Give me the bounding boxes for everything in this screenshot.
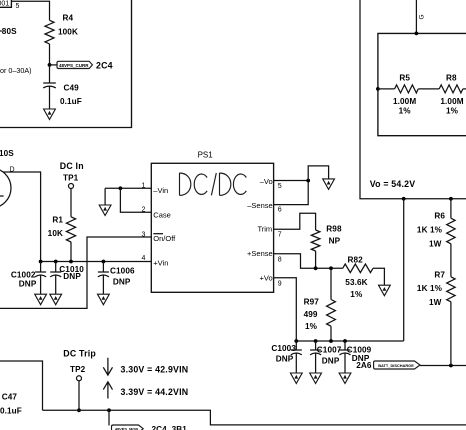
arrow down annotation [103,358,112,375]
svg-text:C1009: C1009 [347,345,372,354]
capacitor C1007 [310,341,321,373]
wire On/Off to left edge [0,237,151,308]
capacitor C1010 [50,262,61,295]
svg-text:R4: R4 [63,14,74,23]
svg-text:DNP: DNP [63,272,81,281]
svg-text:80S: 80S [2,27,17,36]
arrow up annotation [103,382,112,399]
output cap bus [296,340,403,342]
svg-text:R82: R82 [348,256,364,265]
svg-text:8: 8 [278,256,282,263]
svg-text:Case: Case [153,210,171,219]
svg-text:TP2: TP2 [70,365,86,374]
wire to output ground [308,166,328,181]
resistor R98 [311,230,320,251]
svg-text:10K: 10K [48,229,63,238]
wire node to flag [50,64,58,66]
svg-text:10S: 10S [0,149,14,158]
node R98 bottom [314,266,318,270]
svg-text:48VPS_MON: 48VPS_MON [115,427,139,430]
svg-text:2C4: 2C4 [96,60,113,70]
wire TP1 to R1 [70,188,72,217]
svg-text:1%: 1% [446,106,459,115]
svg-text:R98: R98 [326,224,342,233]
wire C49 to ground [49,86,51,109]
connector J? box top-left [0,0,11,7]
ground C1010 [50,294,62,305]
svg-text:On/Off: On/Off [153,234,176,243]
svg-text:C1002: C1002 [11,271,36,280]
svg-text:R7: R7 [434,270,445,279]
svg-text:2C4, 3B1: 2C4, 3B1 [152,425,188,430]
wire node to C49 [49,65,51,83]
wire -Vin net [105,187,151,189]
resistor R1 [66,217,75,242]
wire drain to bus [3,172,41,262]
svg-text:Trim: Trim [257,225,272,234]
node D wire / C1002 [39,260,43,264]
svg-text:001: 001 [0,1,9,8]
svg-text:53.6K: 53.6K [345,278,367,287]
node C1006 [102,260,106,264]
svg-text:or 0–30A): or 0–30A) [0,66,32,75]
svg-text:1W: 1W [429,239,442,248]
ground C1006 [98,294,110,305]
node C1010 [54,260,58,264]
resistor R8 [418,85,466,93]
resistor R7 [447,277,455,366]
capacitor C1002 [35,262,46,295]
svg-text:9: 9 [278,280,282,287]
capacitor C49 [43,83,56,88]
wire pin8 to R82 [274,254,343,269]
svg-text:C49: C49 [64,83,80,92]
node divider left [376,87,380,91]
node junction R4/C49/flag [48,63,52,67]
svg-text:–Vin: –Vin [153,186,168,195]
wire G input [415,0,417,33]
svg-text:1%: 1% [350,290,363,299]
svg-text:BATT_DISCHARGE: BATT_DISCHARGE [378,363,414,368]
svg-text:Vo = 54.2V: Vo = 54.2V [370,179,416,189]
bus +Vin [41,261,152,263]
svg-text:DNP: DNP [322,356,340,365]
svg-text:1.00M: 1.00M [393,97,416,106]
wire C47 net [0,361,43,410]
ground R82 [379,285,391,296]
svg-text:1%: 1% [399,106,412,115]
svg-text:G: G [419,14,426,19]
svg-text:+Vo: +Vo [260,274,273,283]
node Vo/R6 [449,197,453,201]
wire TP2 to bus [78,381,80,411]
svg-text:NP: NP [329,237,341,246]
svg-text:C1007: C1007 [317,345,342,354]
resistor R97 [327,268,336,341]
svg-text:+Sense: +Sense [247,249,273,258]
svg-text:TP1: TP1 [63,173,79,182]
resistor R6 [447,199,455,277]
node pin1/pin2 tie [119,186,123,190]
svg-text:1K 1%: 1K 1% [417,284,443,293]
wire to Case pin [120,188,151,212]
svg-text:R6: R6 [434,212,445,221]
svg-text:1.00M: 1.00M [440,97,463,106]
svg-text:–Sense: –Sense [247,201,272,210]
capacitor C1009 [340,341,351,373]
svg-text:DNP: DNP [276,355,294,364]
big DC/DC lettering [180,173,247,195]
resistor R82 [343,264,373,273]
svg-text:0.1uF: 0.1uF [0,406,22,415]
svg-text:3.39V = 44.2VIN: 3.39V = 44.2VIN [121,387,189,397]
svg-text:R8: R8 [446,74,457,83]
wire R1 to bus [70,242,72,262]
wire R98 bottom [315,251,317,268]
svg-text:1K 1%: 1K 1% [417,226,443,235]
divider box R5/R8 [378,33,466,135]
svg-text:6: 6 [278,206,282,213]
node R1 [69,260,73,264]
wire pin5 [274,180,309,182]
big box left edge [0,0,132,128]
svg-text:7: 7 [278,231,282,238]
svg-text:R1: R1 [52,215,63,224]
svg-text:0.1uF: 0.1uF [60,97,82,106]
wire pin9 down [274,278,297,341]
svg-text:R97: R97 [304,298,320,307]
ground near pin1 [104,188,106,205]
net flag BATT_DISCHARGE [374,361,420,369]
capacitor C1003 [291,341,302,373]
ground below C49 [44,109,56,120]
bottom bus [43,410,466,425]
svg-text:1W: 1W [429,298,442,307]
svg-text:+Vin: +Vin [153,258,168,267]
svg-text:PS1: PS1 [198,151,214,160]
node R97 top [329,266,333,270]
wire flag to R7 node [420,365,466,367]
net flag 48VPS_MON [112,425,144,430]
wire connector pin5 to R4 [11,1,49,20]
node pin5/6 [306,179,310,183]
svg-text:DC In: DC In [60,161,84,171]
svg-text:100K: 100K [58,27,78,36]
svg-text:C1003: C1003 [271,344,296,353]
Vo vertical feed [360,0,466,199]
svg-text:3: 3 [141,231,145,238]
svg-text:1%: 1% [305,322,318,331]
node Vo/cap branch [402,197,406,201]
svg-text:–Vo: –Vo [260,177,273,186]
svg-text:5: 5 [16,3,20,10]
wire R4 to node [49,44,51,65]
transistor Q? circle [0,168,11,208]
svg-text:2: 2 [141,207,145,214]
svg-text:DC Trip: DC Trip [63,348,96,358]
svg-text:1: 1 [141,183,145,190]
svg-text:R5: R5 [399,74,410,83]
partial text 80S [0,30,2,32]
wire Vo to cap bus [403,199,405,341]
resistor R5 [378,85,418,93]
wire R82 to ground [373,268,384,285]
svg-text:499: 499 [304,310,318,319]
svg-text:5: 5 [278,183,282,190]
wire pin7 to R98 [274,213,316,230]
svg-text:DNP: DNP [19,279,37,288]
ground output [323,179,335,190]
capacitor C1006 [98,262,109,295]
svg-text:DNP: DNP [113,277,131,286]
wire pin6 up to pin5 [274,181,309,205]
svg-text:2A6: 2A6 [356,361,372,370]
resistor R4 [45,20,54,44]
svg-text:48VPS_CURR: 48VPS_CURR [59,63,89,68]
net flag 48VPS_CURR [57,61,92,68]
svg-text:4: 4 [141,255,145,262]
node 48VPS_MON tap [107,408,111,412]
svg-text:C47: C47 [2,393,18,402]
svg-text:C1006: C1006 [110,267,135,276]
svg-text:3.30V = 42.9VIN: 3.30V = 42.9VIN [121,364,189,374]
ground C1002 [35,294,47,305]
